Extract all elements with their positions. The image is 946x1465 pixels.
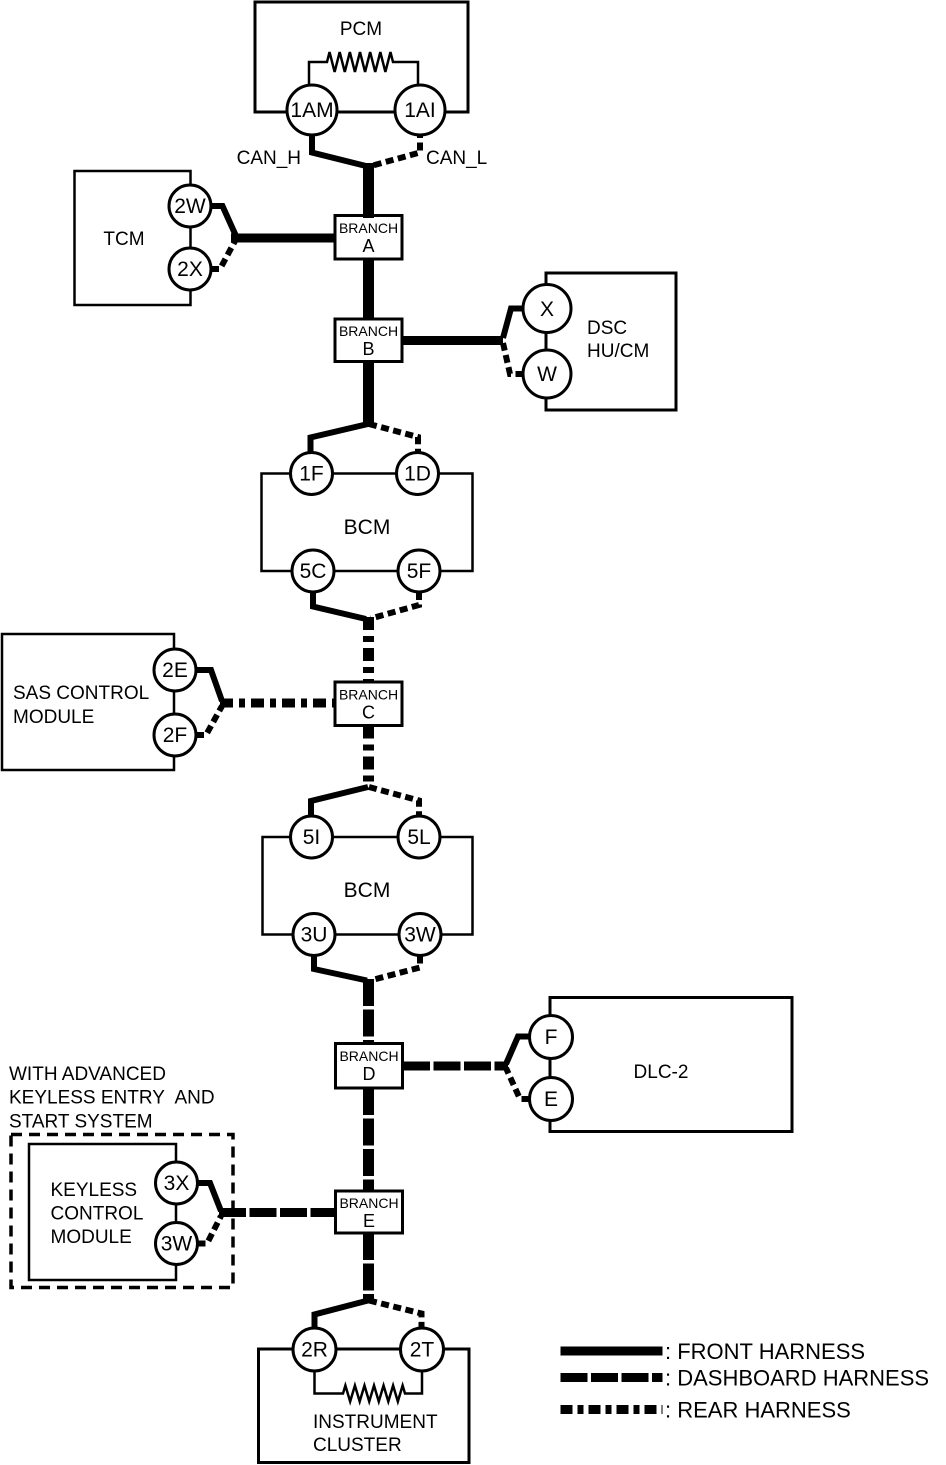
wire junction to 2R (front harness)	[315, 1301, 369, 1329]
wire 5F to junction (dashboard harness)	[371, 592, 419, 619]
svg-text:DLC-2: DLC-2	[634, 1062, 689, 1083]
BCM module box (upper)	[262, 474, 473, 572]
DSC HU/CM module box	[546, 273, 676, 410]
svg-text:2F: 2F	[163, 724, 188, 747]
front harness BRANCH B to DSC	[403, 336, 504, 345]
svg-text:3W: 3W	[161, 1233, 193, 1256]
svg-text:5F: 5F	[407, 560, 432, 583]
connector 3W	[399, 914, 441, 956]
svg-text:CAN_H: CAN_H	[237, 148, 301, 169]
svg-text:B: B	[362, 339, 374, 359]
svg-text:D: D	[363, 1064, 376, 1084]
connector W	[523, 350, 571, 398]
wire 2X to junction (dashboard harness)	[211, 241, 235, 269]
svg-text:X: X	[540, 298, 554, 321]
junction box BRANCH C	[335, 682, 402, 726]
wire junction to 2T (dashboard harness)	[369, 1301, 422, 1329]
wire E to junction (dashboard harness)	[506, 1068, 530, 1099]
svg-text:MODULE: MODULE	[13, 707, 94, 728]
connector F	[530, 1016, 573, 1059]
wire 1AM to junction (CAN_H, front harness)	[312, 130, 366, 166]
wire junction to 5L (dashboard harness)	[369, 787, 419, 816]
wire W to junction (dashboard harness)	[503, 343, 524, 374]
junction box BRANCH A	[335, 216, 402, 260]
wire 2E to junction (front harness)	[196, 670, 222, 701]
wire 3U to junction (front harness)	[314, 956, 367, 981]
svg-text:1F: 1F	[299, 463, 324, 486]
wire 2W to junction (front harness)	[211, 206, 236, 236]
svg-text:3U: 3U	[301, 924, 328, 947]
wire 3W to junction (dashboard harness)	[198, 1216, 222, 1244]
front harness TCM to BRANCH A	[231, 234, 336, 243]
svg-text:CAN_L: CAN_L	[426, 148, 487, 169]
connector 5L	[398, 816, 440, 858]
svg-text:2R: 2R	[301, 1339, 328, 1362]
connector 2W	[169, 185, 211, 227]
DLC-2 module box	[550, 998, 792, 1132]
BCM module box (lower)	[263, 837, 473, 935]
wire 3W to junction (dashboard harness)	[372, 956, 420, 981]
svg-text:INSTRUMENT: INSTRUMENT	[313, 1412, 438, 1433]
dashboard harness BRANCH D to DLC-2	[403, 1062, 508, 1071]
connector E	[530, 1078, 573, 1121]
dashboard harness: Y junction to BRANCH D	[363, 979, 374, 1045]
dashed option enclosure box	[11, 1135, 233, 1288]
junction box BRANCH D	[336, 1044, 403, 1089]
PCM module box	[255, 2, 468, 112]
connector 1F	[291, 453, 333, 495]
svg-text:BRANCH: BRANCH	[339, 687, 398, 703]
connector 3W (keyless)	[156, 1223, 198, 1265]
wire junction to 1F (front harness)	[311, 424, 369, 453]
svg-text:1D: 1D	[404, 463, 431, 486]
svg-text:C: C	[362, 703, 375, 723]
svg-text:3W: 3W	[404, 924, 436, 947]
svg-text:A: A	[362, 236, 374, 256]
svg-text:E: E	[544, 1088, 558, 1111]
svg-text:: REAR HARNESS: : REAR HARNESS	[665, 1398, 851, 1423]
legend rear harness sample line	[561, 1405, 663, 1414]
svg-text:W: W	[537, 363, 557, 386]
connector 2X	[169, 248, 211, 290]
svg-text:1AI: 1AI	[404, 99, 436, 122]
dashboard harness KEYLESS to BRANCH E	[219, 1208, 336, 1217]
front harness spine: BRANCH A to BRANCH B	[363, 259, 374, 320]
connector 1D	[397, 453, 439, 495]
svg-text:KEYLESS ENTRY AND: KEYLESS ENTRY AND	[9, 1088, 215, 1109]
wire 1AI to junction (CAN_L, dashboard harness)	[369, 130, 420, 167]
wire X to junction (front harness)	[503, 309, 524, 339]
wire 3X to junction (front harness)	[198, 1183, 222, 1211]
connector 2F	[154, 714, 196, 756]
svg-text:BRANCH: BRANCH	[339, 220, 398, 236]
svg-text:HU/CM: HU/CM	[587, 341, 649, 362]
KEYLESS CONTROL MODULE box	[29, 1144, 176, 1280]
svg-text:3X: 3X	[164, 1172, 190, 1195]
wire 2F to junction (dashboard harness)	[196, 706, 222, 735]
dashboard harness: BRANCH D to BRANCH E	[363, 1088, 374, 1192]
svg-text:TCM: TCM	[103, 229, 144, 250]
terminating resistor inside instrument cluster	[315, 1371, 423, 1402]
connector 5I	[291, 816, 333, 858]
svg-text:: DASHBOARD HARNESS: : DASHBOARD HARNESS	[665, 1366, 929, 1391]
connector 2E	[154, 649, 196, 691]
svg-text:E: E	[363, 1211, 375, 1231]
svg-text:2T: 2T	[410, 1339, 435, 1362]
INSTRUMENT CLUSTER module box	[259, 1349, 470, 1463]
svg-text:SAS CONTROL: SAS CONTROL	[13, 683, 149, 704]
svg-text:BCM: BCM	[344, 879, 391, 902]
legend front harness sample line	[561, 1347, 663, 1356]
svg-text:2X: 2X	[177, 258, 203, 281]
connector 3X	[156, 1162, 198, 1204]
svg-text:PCM: PCM	[340, 19, 382, 40]
wire junction to 5I (front harness)	[311, 787, 368, 816]
svg-text:2W: 2W	[174, 195, 206, 218]
connector 2R	[293, 1328, 336, 1371]
svg-text:5I: 5I	[303, 826, 321, 849]
legend dashboard harness sample line	[561, 1373, 663, 1382]
svg-text:: FRONT HARNESS: : FRONT HARNESS	[665, 1339, 865, 1364]
connector X	[523, 285, 571, 333]
svg-text:CONTROL: CONTROL	[51, 1204, 144, 1225]
connector 5C	[292, 550, 334, 592]
wire F to junction (front harness)	[506, 1037, 530, 1065]
svg-text:BRANCH: BRANCH	[339, 1048, 398, 1064]
svg-text:BCM: BCM	[344, 516, 391, 539]
junction box BRANCH B	[335, 319, 402, 362]
svg-text:CLUSTER: CLUSTER	[313, 1435, 402, 1456]
svg-text:2E: 2E	[162, 659, 188, 682]
rear harness SAS to BRANCH C	[220, 699, 336, 708]
front harness spine: BRANCH B down to Y junction	[363, 361, 374, 426]
rear harness: Y junction to BRANCH C	[363, 617, 374, 683]
svg-text:1AM: 1AM	[290, 99, 333, 122]
junction box BRANCH E	[336, 1191, 403, 1233]
wire junction to 1D (dashboard harness)	[369, 424, 418, 453]
terminating resistor inside PCM	[309, 52, 418, 85]
svg-text:BRANCH: BRANCH	[339, 1195, 398, 1211]
svg-text:BRANCH: BRANCH	[339, 323, 398, 339]
connector 2T	[401, 1328, 444, 1371]
connector 5F	[398, 550, 440, 592]
SAS CONTROL MODULE box	[2, 634, 174, 770]
svg-text:WITH ADVANCED: WITH ADVANCED	[9, 1064, 166, 1085]
svg-text:5C: 5C	[300, 560, 327, 583]
svg-text:F: F	[545, 1026, 558, 1049]
connector 3U	[293, 914, 335, 956]
connector 1AI	[395, 85, 445, 135]
svg-text:MODULE: MODULE	[51, 1227, 132, 1248]
svg-text:5L: 5L	[407, 826, 430, 849]
TCM module box	[75, 171, 191, 305]
wire 5C to junction (front harness)	[313, 592, 366, 619]
connector 1AM	[287, 85, 337, 135]
svg-text:START SYSTEM: START SYSTEM	[9, 1112, 153, 1133]
rear harness: BRANCH C down to Y junction	[363, 726, 374, 790]
dashboard harness: BRANCH E down to Y junction	[363, 1233, 374, 1302]
front harness spine: junction to BRANCH A	[363, 163, 374, 218]
svg-text:DSC: DSC	[587, 318, 627, 339]
svg-text:KEYLESS: KEYLESS	[51, 1180, 138, 1201]
